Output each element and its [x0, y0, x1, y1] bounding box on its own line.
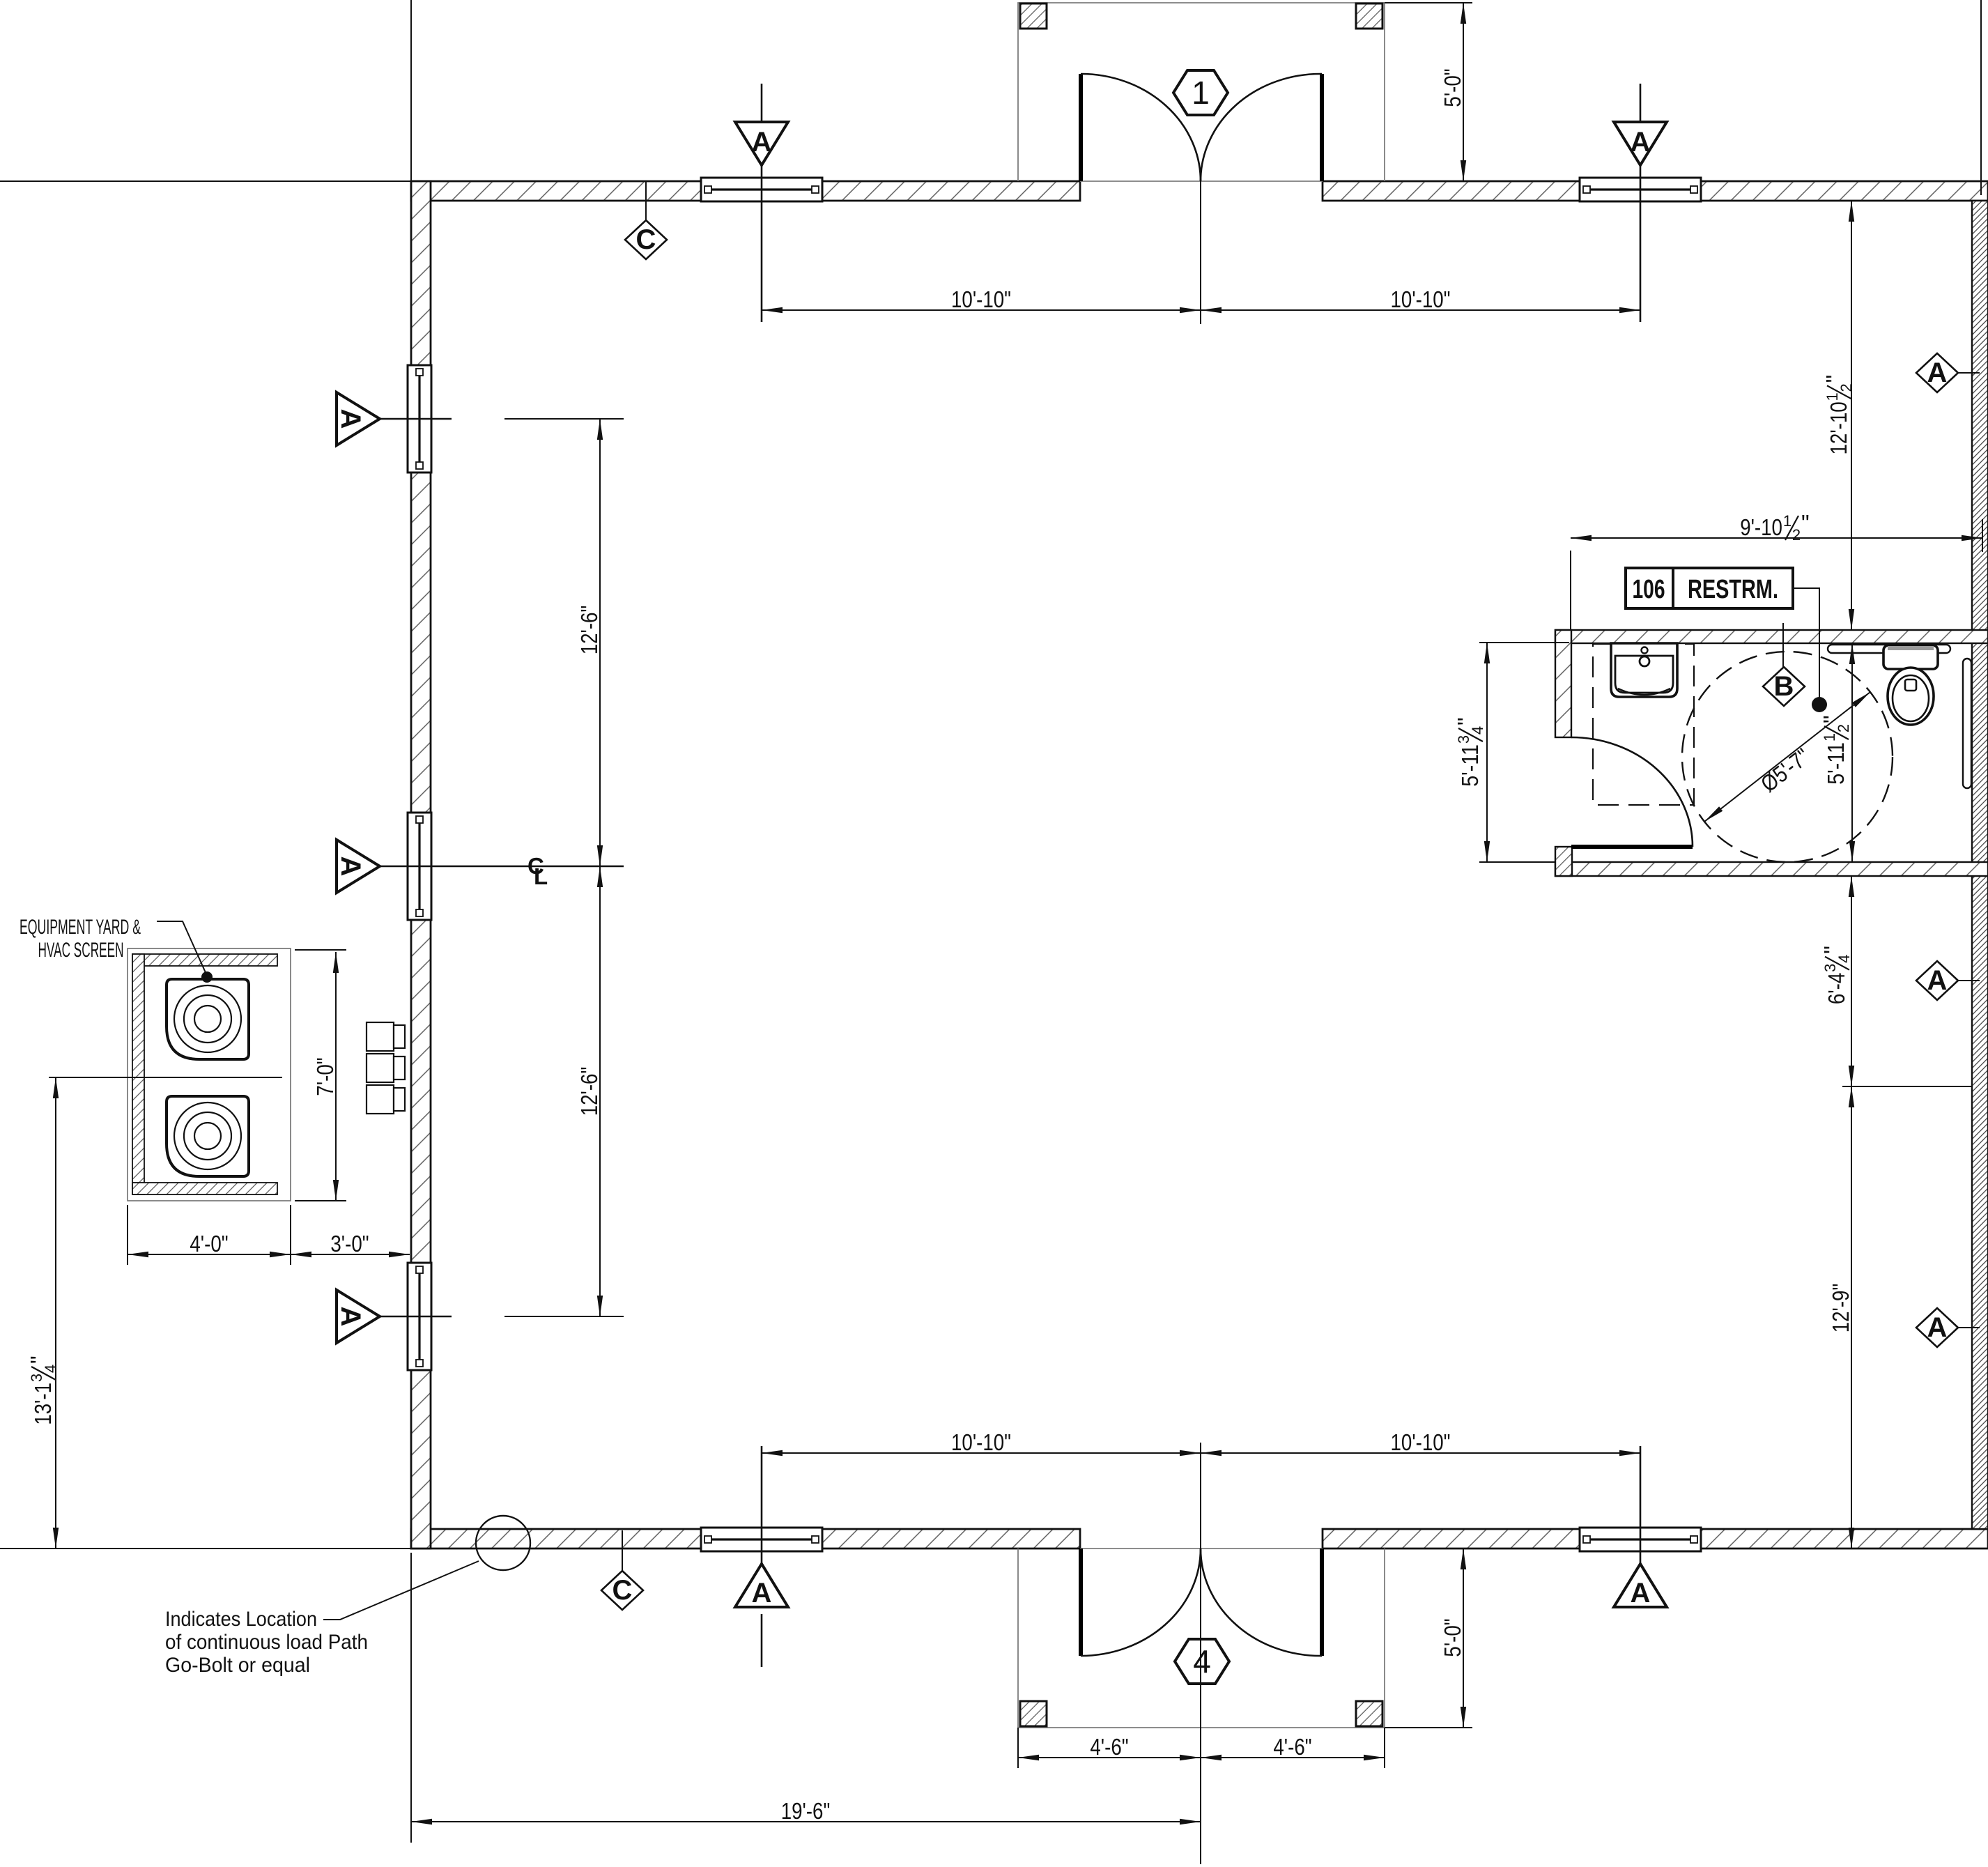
svg-text:": ": [26, 1355, 52, 1364]
svg-text:7'-0": 7'-0": [312, 1057, 338, 1096]
svg-text:B: B: [1774, 671, 1794, 702]
svg-text:9'-10: 9'-10: [1740, 514, 1782, 540]
svg-text:A: A: [752, 1578, 772, 1608]
svg-text:4'-0": 4'-0": [190, 1231, 228, 1257]
svg-text:1: 1: [1821, 733, 1838, 742]
svg-text:C: C: [612, 1575, 633, 1606]
svg-text:3: 3: [28, 1374, 45, 1382]
svg-text:2: 2: [1792, 526, 1801, 544]
svg-text:10'-10": 10'-10": [951, 1429, 1011, 1455]
svg-text:5'-11: 5'-11: [1457, 744, 1483, 787]
svg-text:3: 3: [1455, 735, 1472, 744]
svg-text:12'-6": 12'-6": [576, 1067, 602, 1116]
svg-text:": ": [1453, 717, 1479, 725]
svg-text:106: 106: [1633, 575, 1665, 604]
svg-text:RESTRM.: RESTRM.: [1688, 575, 1778, 604]
svg-text:Indicates Location: Indicates Location: [165, 1608, 317, 1631]
svg-text:12'-10: 12'-10: [1826, 401, 1851, 454]
svg-text:12'-9": 12'-9": [1828, 1284, 1854, 1333]
svg-text:L: L: [534, 863, 548, 889]
svg-text:1: 1: [1824, 392, 1841, 401]
svg-text:4: 4: [1835, 955, 1853, 963]
svg-text:A: A: [335, 856, 366, 877]
svg-text:A: A: [335, 1307, 366, 1327]
svg-text:4'-6": 4'-6": [1090, 1734, 1128, 1760]
svg-text:3'-0": 3'-0": [330, 1231, 369, 1257]
svg-text:10'-10": 10'-10": [1391, 286, 1451, 312]
svg-text:2: 2: [1835, 724, 1852, 732]
svg-text:10'-10": 10'-10": [1391, 1429, 1451, 1455]
svg-text:5'-0": 5'-0": [1440, 1618, 1465, 1657]
svg-text:A: A: [1631, 127, 1651, 157]
svg-text:19'-6": 19'-6": [781, 1798, 831, 1824]
svg-text:EQUIPMENT YARD &: EQUIPMENT YARD &: [20, 916, 141, 939]
svg-text:Go-Bolt or equal: Go-Bolt or equal: [165, 1654, 310, 1677]
svg-text:3: 3: [1821, 964, 1839, 972]
svg-text:": ": [1821, 375, 1847, 383]
svg-text:A: A: [1631, 1578, 1651, 1608]
svg-text:4: 4: [42, 1365, 59, 1373]
svg-text:10'-10": 10'-10": [951, 286, 1011, 312]
svg-text:1: 1: [1783, 512, 1791, 530]
svg-text:13'-1: 13'-1: [30, 1383, 56, 1425]
svg-text:12'-6": 12'-6": [576, 606, 602, 655]
svg-text:": ": [1819, 946, 1845, 954]
svg-text:of continuous load Path: of continuous load Path: [165, 1631, 368, 1654]
svg-text:5'-11: 5'-11: [1823, 742, 1849, 785]
svg-text:A: A: [1927, 1312, 1948, 1343]
svg-text:4: 4: [1469, 726, 1486, 735]
svg-text:4'-6": 4'-6": [1273, 1734, 1311, 1760]
svg-text:4: 4: [1193, 1643, 1211, 1680]
svg-text:2: 2: [1837, 383, 1855, 392]
svg-text:A: A: [1927, 358, 1948, 388]
svg-text:A: A: [335, 409, 366, 429]
svg-text:5'-0": 5'-0": [1440, 68, 1465, 107]
svg-text:A: A: [1927, 965, 1948, 996]
svg-text:A: A: [752, 127, 772, 157]
svg-text:1: 1: [1192, 75, 1210, 111]
svg-text:": ": [1801, 510, 1810, 536]
svg-text:6'-4: 6'-4: [1824, 973, 1849, 1004]
svg-text:HVAC SCREEN: HVAC SCREEN: [38, 939, 124, 962]
svg-text:C: C: [636, 224, 656, 255]
